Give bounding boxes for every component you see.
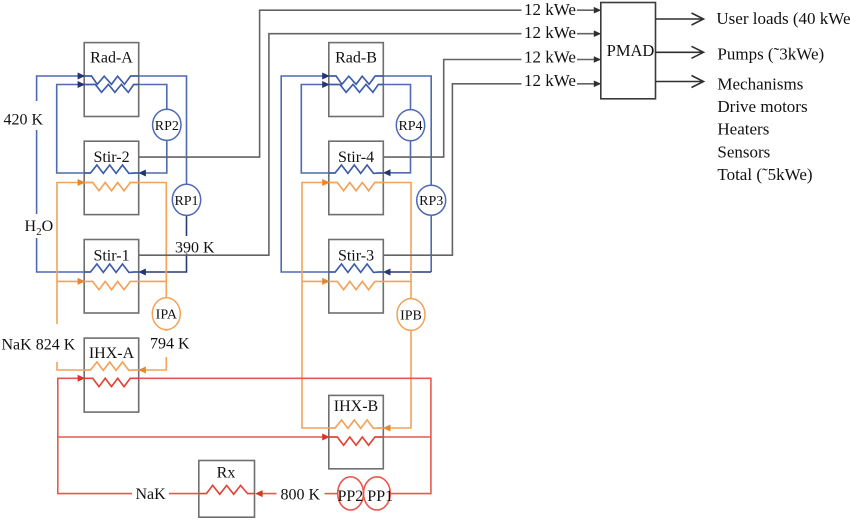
- svg-text:IHX-B: IHX-B: [334, 398, 378, 415]
- label 800 K: [278, 485, 324, 504]
- svg-text:User loads (40 kWe): User loads (40 kWe): [716, 9, 850, 28]
- arrowhead into Stir-1 right: [138, 269, 146, 276]
- zigzag IHX-B red: [329, 437, 384, 445]
- svg-text:Rad-A: Rad-A: [90, 49, 133, 66]
- electrical line Stir-3 to PMAD row4: [383, 84, 595, 255]
- svg-text:Drive motors: Drive motors: [717, 97, 807, 116]
- zigzag Rad-B upper blue: [329, 76, 384, 84]
- svg-text:NaK 824 K: NaK 824 K: [2, 336, 76, 353]
- electrical line Stir-2 to PMAD row1: [139, 10, 595, 157]
- Stirling engine box Stir-2: [84, 141, 139, 214]
- arrowhead into PMAD row2: [594, 30, 601, 37]
- arrowhead into Stir-2 left orange: [78, 179, 86, 186]
- svg-text:NaK: NaK: [136, 486, 167, 503]
- wire branch to Stir-3 orange inlet: [302, 280, 323, 282]
- radiator box Rad-B: [329, 43, 384, 117]
- wire RP2 to Stir-2 inlet: [145, 140, 167, 174]
- wire branch to Stir-1 orange inlet: [57, 280, 79, 282]
- zigzag Stir-4 blue: [329, 165, 384, 173]
- arrowhead into Rad-A lower: [78, 81, 86, 88]
- wire NaK loop B return via IPB: [383, 183, 411, 429]
- pump circle PP2: [338, 477, 364, 510]
- reactor box Rx: [199, 461, 255, 518]
- Stirling engine box Stir-4: [329, 141, 384, 214]
- zigzag IHX-A red: [84, 378, 139, 386]
- arrowhead into Rad-B upper: [322, 73, 330, 80]
- electrical line Stir-4 to PMAD row3: [383, 60, 595, 158]
- arrowhead into Stir-4 right: [383, 169, 391, 176]
- svg-text:Heaters: Heaters: [717, 119, 769, 138]
- zigzag Stir-3 orange: [329, 281, 384, 289]
- label NaK bottom: [132, 485, 169, 503]
- svg-text:RP1: RP1: [174, 194, 198, 209]
- arrowhead into PMAD row4: [594, 81, 601, 88]
- wire NaK loop B supply vertical: [302, 183, 329, 429]
- wire primary return IHX-A out to pumps: [139, 378, 431, 493]
- wire Rad-B lower outlet to RP4: [383, 85, 410, 111]
- zigzag Stir-4 orange: [329, 183, 384, 191]
- zigzag Stir-1 blue: [84, 264, 139, 272]
- label NaK 824 K: [2, 324, 76, 362]
- pump circle IPA: [152, 298, 180, 330]
- arrowhead into Rad-A upper: [78, 73, 86, 80]
- PMAD output arrow mechanisms: [656, 76, 704, 88]
- wire water loop B2 supply vertical: [301, 85, 329, 174]
- PMAD box: [601, 3, 656, 99]
- heat exchanger box IHX-A: [84, 338, 139, 412]
- svg-text:Sensors: Sensors: [717, 142, 770, 161]
- wire primary return IHX-B out: [383, 436, 431, 438]
- wire Rad-A lower outlet to RP2: [139, 85, 167, 111]
- svg-text:Stir-1: Stir-1: [93, 247, 129, 264]
- svg-text:RP3: RP3: [419, 194, 443, 209]
- label 794 K: [150, 331, 190, 357]
- pump circle RP1: [172, 184, 200, 215]
- arrowhead into Stir-3 left orange: [322, 278, 330, 285]
- svg-text:Mechanisms: Mechanisms: [717, 75, 803, 94]
- label 390 K: [175, 236, 215, 257]
- svg-text:12 kWe: 12 kWe: [524, 71, 576, 90]
- pump circle RP2: [153, 109, 181, 140]
- electrical line Stir-1 to PMAD row2: [139, 34, 595, 256]
- zigzag Rad-A upper blue: [84, 76, 139, 84]
- arrowhead into PMAD row1: [594, 7, 601, 14]
- svg-text:12 kWe: 12 kWe: [524, 47, 576, 66]
- PMAD output arrow user loads: [656, 13, 704, 25]
- arrowhead into Rad-B lower: [322, 81, 330, 88]
- svg-text:PMAD: PMAD: [607, 41, 655, 60]
- arrowhead into Stir-1 left orange: [78, 278, 86, 285]
- arrowhead into IHX-A left red: [78, 375, 86, 382]
- svg-text:800 K: 800 K: [281, 487, 321, 504]
- wire NaK loop A return via IPA: [139, 183, 167, 371]
- svg-text:12 kWe: 12 kWe: [524, 0, 576, 19]
- zigzag Stir-3 blue: [329, 264, 384, 272]
- svg-text:RP4: RP4: [398, 119, 422, 134]
- pump circle PP1: [364, 477, 391, 510]
- label 420 K: [2, 101, 44, 130]
- wire water loop A1 supply 420K vertical: [37, 76, 85, 272]
- svg-text:Stir-3: Stir-3: [338, 247, 374, 264]
- heat exchanger box IHX-B: [329, 395, 384, 468]
- wire water loop A2 supply vertical: [57, 85, 84, 174]
- Stirling engine box Stir-3: [329, 240, 384, 314]
- svg-text:Rx: Rx: [217, 465, 236, 482]
- zigzag Rx red: [199, 485, 255, 494]
- svg-text:Stir-2: Stir-2: [93, 149, 129, 166]
- arrowhead into Stir-2 right: [138, 170, 146, 177]
- wire primary branch to IHX-B: [58, 436, 323, 438]
- svg-text:Rad-B: Rad-B: [335, 49, 377, 66]
- wire Rad-A upper outlet to RP1: [139, 76, 187, 185]
- arrowhead into Rx right: [255, 490, 263, 497]
- svg-text:Total (˜5kWe): Total (˜5kWe): [717, 165, 812, 184]
- svg-text:390 K: 390 K: [175, 240, 215, 257]
- svg-text:IPA: IPA: [156, 308, 178, 323]
- arrowhead into IHX-B left red: [322, 434, 330, 441]
- wire primary NaK loop from Rx out left riser: [58, 378, 199, 493]
- pump circle RP4: [396, 110, 424, 141]
- svg-text:Stir-4: Stir-4: [338, 149, 374, 166]
- zigzag IHX-B orange: [329, 420, 384, 428]
- radiator box Rad-A: [84, 43, 139, 117]
- Stirling engine box Stir-1: [84, 240, 139, 314]
- svg-text:12 kWe: 12 kWe: [524, 23, 576, 42]
- pump circle IPB: [397, 299, 425, 331]
- PMAD output arrow pumps: [656, 46, 704, 58]
- wire RP1 to Stir-1 inlet 390K: [145, 215, 187, 273]
- zigzag Rad-B lower blue: [329, 84, 384, 92]
- label H2O: [23, 214, 53, 238]
- wire RP4 to Stir-4 inlet: [389, 140, 410, 173]
- wire Rad-B upper outlet to RP3: [383, 76, 431, 186]
- zigzag Stir-2 blue: [84, 165, 139, 173]
- zigzag IHX-A orange: [84, 362, 139, 370]
- svg-text:420 K: 420 K: [4, 111, 44, 128]
- arrowhead into Stir-4 left orange: [322, 179, 330, 186]
- arrowhead into IHX-B right orange: [383, 425, 391, 432]
- wire water loop B1 supply vertical: [281, 76, 329, 272]
- wire pumps to Rx 800K: [260, 493, 337, 495]
- pump circle RP3: [417, 185, 446, 215]
- arrowhead into PMAD row3: [594, 56, 601, 63]
- zigzag Stir-1 orange: [84, 281, 139, 289]
- svg-text:IHX-A: IHX-A: [89, 345, 135, 362]
- zigzag Stir-2 orange: [84, 183, 139, 191]
- zigzag Rad-A lower blue: [84, 84, 139, 92]
- svg-text:IPB: IPB: [400, 309, 422, 324]
- svg-text:PP2 PP1: PP2 PP1: [338, 488, 394, 505]
- wire RP3 to Stir-3 inlet: [389, 215, 431, 272]
- arrowhead into Stir-3 right: [383, 269, 391, 276]
- wire NaK loop A supply 824K vertical: [57, 183, 84, 371]
- svg-text:RP2: RP2: [155, 119, 179, 134]
- svg-text:794 K: 794 K: [150, 335, 190, 352]
- arrowhead into IHX-A right orange: [138, 367, 146, 374]
- svg-text:Pumps (˜3kWe): Pumps (˜3kWe): [717, 44, 824, 63]
